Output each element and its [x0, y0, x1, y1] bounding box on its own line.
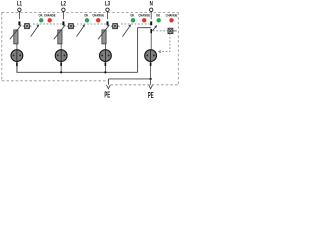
- svg-text:L2: L2: [61, 1, 66, 8]
- svg-text:L1: L1: [17, 1, 22, 8]
- svg-text:CHANGE: CHANGE: [92, 13, 104, 17]
- svg-text:CHANGE: CHANGE: [138, 13, 150, 17]
- svg-text:OK: OK: [130, 13, 135, 17]
- svg-text:CHANGE: CHANGE: [166, 13, 178, 17]
- svg-text:PE: PE: [148, 92, 154, 100]
- svg-text:OK: OK: [38, 13, 43, 17]
- svg-text:OK: OK: [84, 13, 89, 17]
- svg-text:N: N: [150, 1, 153, 8]
- svg-text:CHANGE: CHANGE: [44, 13, 56, 17]
- svg-text:L3: L3: [105, 1, 110, 8]
- svg-text:PE: PE: [104, 91, 110, 100]
- svg-text:OK: OK: [156, 13, 161, 17]
